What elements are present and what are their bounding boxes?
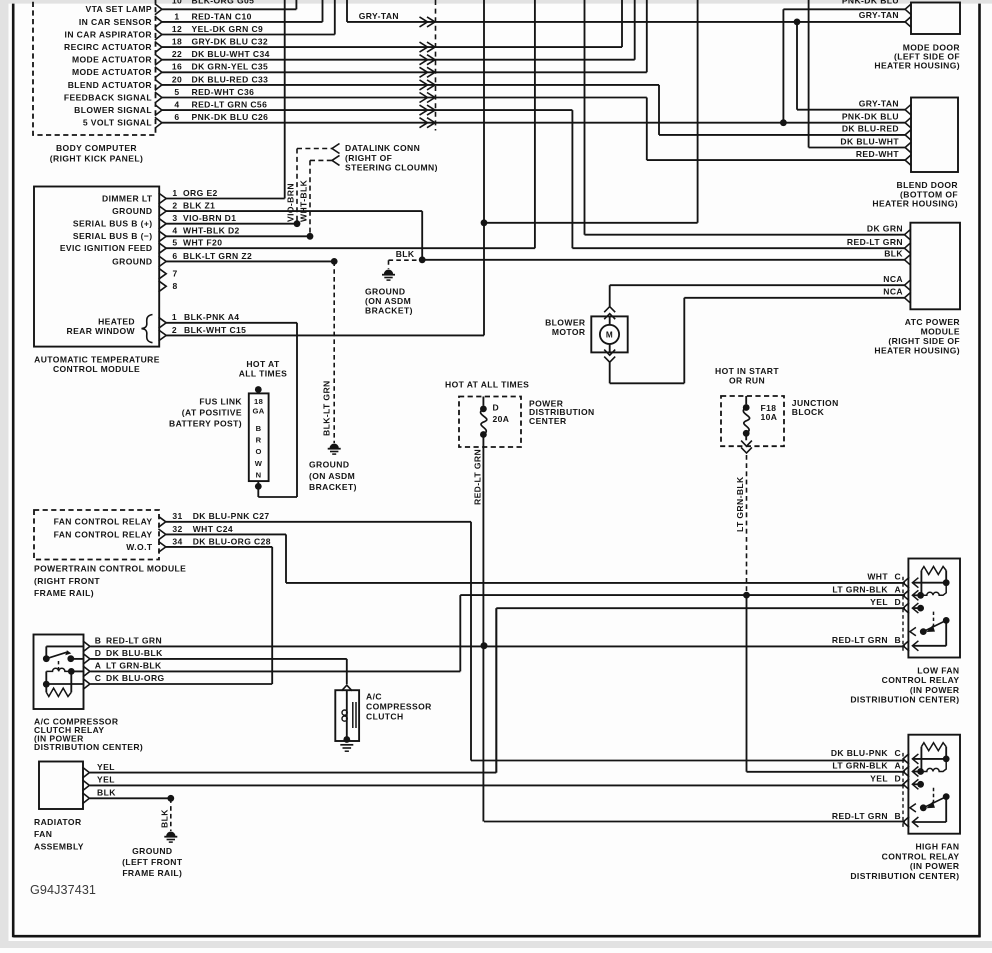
svg-text:1: 1 <box>172 188 177 198</box>
svg-text:4: 4 <box>172 226 177 236</box>
svg-text:LT GRN-BLK: LT GRN-BLK <box>106 661 162 671</box>
svg-text:16: 16 <box>172 62 182 72</box>
svg-text:LT GRN-BLK: LT GRN-BLK <box>832 761 888 771</box>
svg-text:W.O.T: W.O.T <box>126 542 153 552</box>
svg-text:GROUND: GROUND <box>112 206 152 216</box>
svg-text:A: A <box>95 661 102 671</box>
svg-text:R: R <box>256 436 262 445</box>
svg-text:10A: 10A <box>761 412 778 422</box>
svg-text:WHT: WHT <box>867 572 888 582</box>
svg-text:C: C <box>895 748 902 758</box>
svg-text:10: 10 <box>172 0 182 5</box>
svg-text:RED-LT GRN: RED-LT GRN <box>832 635 888 645</box>
svg-text:A/C: A/C <box>366 691 382 701</box>
svg-text:LT GRN-BLK: LT GRN-BLK <box>832 584 888 594</box>
svg-text:REAR WINDOW: REAR WINDOW <box>67 326 136 336</box>
svg-text:DK BLU-PNK: DK BLU-PNK <box>831 748 889 758</box>
svg-text:(RIGHT KICK PANEL): (RIGHT KICK PANEL) <box>50 154 143 164</box>
svg-text:BLOWER: BLOWER <box>545 317 585 327</box>
svg-text:MODE ACTUATOR: MODE ACTUATOR <box>72 67 152 77</box>
svg-text:DK BLU-BLK: DK BLU-BLK <box>106 648 163 658</box>
svg-text:IN CAR SENSOR: IN CAR SENSOR <box>79 17 152 27</box>
svg-text:FRAME RAIL): FRAME RAIL) <box>34 588 94 598</box>
svg-text:3: 3 <box>172 213 177 223</box>
svg-text:WHT C24: WHT C24 <box>193 524 233 534</box>
svg-text:MOTOR: MOTOR <box>552 327 586 337</box>
svg-text:32: 32 <box>172 524 182 534</box>
svg-text:BLK: BLK <box>97 788 116 798</box>
svg-text:D: D <box>493 402 500 412</box>
svg-text:CENTER: CENTER <box>529 416 567 426</box>
svg-text:FUS LINK: FUS LINK <box>199 397 242 407</box>
svg-text:RED-LT GRN: RED-LT GRN <box>832 811 888 821</box>
svg-text:FAN CONTROL RELAY: FAN CONTROL RELAY <box>54 529 153 539</box>
svg-text:18: 18 <box>172 37 182 47</box>
svg-text:RED-LT GRN C56: RED-LT GRN C56 <box>192 100 268 110</box>
svg-text:GRY-DK BLU C32: GRY-DK BLU C32 <box>192 37 269 47</box>
svg-text:RADIATOR: RADIATOR <box>34 817 82 827</box>
svg-text:W: W <box>255 459 263 468</box>
svg-text:DK GRN: DK GRN <box>867 224 903 234</box>
svg-text:YEL: YEL <box>870 773 888 783</box>
svg-text:WHT-BLK: WHT-BLK <box>299 179 309 222</box>
svg-text:GRY-TAN: GRY-TAN <box>859 99 899 109</box>
svg-text:SERIAL BUS B (−): SERIAL BUS B (−) <box>73 231 153 241</box>
svg-text:5 VOLT SIGNAL: 5 VOLT SIGNAL <box>83 118 152 128</box>
svg-text:(LEFT FRONT: (LEFT FRONT <box>122 857 183 867</box>
svg-text:BLK Z1: BLK Z1 <box>183 201 215 211</box>
svg-text:BLK-LT GRN: BLK-LT GRN <box>322 380 332 436</box>
svg-text:B: B <box>895 635 902 645</box>
svg-text:HEATER HOUSING): HEATER HOUSING) <box>872 199 958 209</box>
svg-text:VTA SET LAMP: VTA SET LAMP <box>85 4 152 14</box>
svg-text:PNK-DK BLU C26: PNK-DK BLU C26 <box>192 112 269 122</box>
svg-text:O: O <box>255 447 261 456</box>
svg-text:(RIGHT FRONT: (RIGHT FRONT <box>34 576 100 586</box>
svg-text:RED-TAN C10: RED-TAN C10 <box>192 11 252 21</box>
svg-text:VIO-BRN: VIO-BRN <box>286 183 296 222</box>
svg-text:RECIRC ACTUATOR: RECIRC ACTUATOR <box>64 42 152 52</box>
svg-text:PNK-DK BLU: PNK-DK BLU <box>842 0 899 5</box>
svg-text:CONTROL RELAY: CONTROL RELAY <box>882 675 960 685</box>
svg-text:STEERING CLOUMN): STEERING CLOUMN) <box>345 163 438 173</box>
svg-text:BLOWER SIGNAL: BLOWER SIGNAL <box>74 105 152 115</box>
svg-text:DISTRIBUTION CENTER): DISTRIBUTION CENTER) <box>850 695 959 705</box>
svg-text:CLUTCH: CLUTCH <box>366 712 404 722</box>
svg-text:5: 5 <box>174 87 179 97</box>
svg-text:DATALINK CONN: DATALINK CONN <box>345 143 420 153</box>
svg-text:BLK: BLK <box>884 249 903 259</box>
svg-text:EVIC IGNITION FEED: EVIC IGNITION FEED <box>60 243 153 253</box>
svg-text:YEL: YEL <box>97 762 115 772</box>
svg-text:RED-LT GRN: RED-LT GRN <box>106 636 162 646</box>
svg-text:4: 4 <box>174 100 179 110</box>
svg-text:M: M <box>606 331 613 340</box>
svg-text:GA: GA <box>252 406 264 415</box>
svg-text:GROUND: GROUND <box>309 460 349 470</box>
svg-text:DK BLU-WHT: DK BLU-WHT <box>840 136 899 146</box>
svg-text:VIO-BRN D1: VIO-BRN D1 <box>183 213 236 223</box>
svg-text:A: A <box>895 761 902 771</box>
svg-text:6: 6 <box>174 112 179 122</box>
svg-text:20A: 20A <box>493 414 510 424</box>
svg-text:GROUND: GROUND <box>112 256 152 266</box>
svg-text:N: N <box>256 470 262 479</box>
svg-text:5: 5 <box>172 238 177 248</box>
svg-text:C: C <box>95 673 102 683</box>
svg-text:NCA: NCA <box>883 287 903 297</box>
svg-text:SERIAL BUS B (+): SERIAL BUS B (+) <box>73 219 153 229</box>
svg-text:GRY-TAN: GRY-TAN <box>359 11 399 21</box>
svg-text:HOT AT: HOT AT <box>246 359 280 369</box>
svg-text:RED-WHT: RED-WHT <box>856 149 900 159</box>
svg-text:(ON ASDM: (ON ASDM <box>309 471 355 481</box>
svg-text:GRY-TAN: GRY-TAN <box>859 10 899 20</box>
svg-text:MODE ACTUATOR: MODE ACTUATOR <box>72 55 152 65</box>
svg-text:2: 2 <box>172 201 177 211</box>
svg-text:DISTRIBUTION CENTER): DISTRIBUTION CENTER) <box>850 871 959 881</box>
svg-text:RED-WHT C36: RED-WHT C36 <box>192 87 255 97</box>
svg-text:RED-LT GRN: RED-LT GRN <box>472 449 482 505</box>
svg-text:WHT F20: WHT F20 <box>183 238 222 248</box>
svg-text:(AT POSITIVE: (AT POSITIVE <box>182 408 242 418</box>
svg-text:A: A <box>895 584 902 594</box>
svg-text:FAN CONTROL RELAY: FAN CONTROL RELAY <box>54 517 153 527</box>
svg-text:PNK-DK BLU: PNK-DK BLU <box>842 112 899 122</box>
svg-text:BLK-WHT C15: BLK-WHT C15 <box>184 325 246 335</box>
svg-text:DK BLU-RED C33: DK BLU-RED C33 <box>192 74 269 84</box>
svg-text:B: B <box>256 424 262 433</box>
svg-text:WHT-BLK D2: WHT-BLK D2 <box>183 226 240 236</box>
svg-text:BLK: BLK <box>159 809 169 828</box>
svg-text:BRACKET): BRACKET) <box>365 306 413 316</box>
svg-text:BLK: BLK <box>396 249 415 259</box>
svg-text:YEL: YEL <box>97 775 115 785</box>
svg-text:DK BLU-PNK C27: DK BLU-PNK C27 <box>193 511 270 521</box>
svg-text:CONTROL RELAY: CONTROL RELAY <box>882 851 960 861</box>
svg-text:ASSEMBLY: ASSEMBLY <box>34 841 84 851</box>
svg-text:LT GRN-BLK: LT GRN-BLK <box>735 476 745 532</box>
svg-text:CONTROL MODULE: CONTROL MODULE <box>53 364 140 374</box>
svg-text:BLEND ACTUATOR: BLEND ACTUATOR <box>68 80 152 90</box>
svg-text:POWERTRAIN CONTROL MODULE: POWERTRAIN CONTROL MODULE <box>34 564 186 574</box>
svg-text:DIMMER LT: DIMMER LT <box>102 193 153 203</box>
svg-text:BLK-ORG G05: BLK-ORG G05 <box>192 0 255 5</box>
svg-text:22: 22 <box>172 49 182 59</box>
svg-text:HOT AT ALL TIMES: HOT AT ALL TIMES <box>445 379 529 389</box>
svg-text:BODY COMPUTER: BODY COMPUTER <box>56 143 137 153</box>
svg-text:DK BLU-ORG: DK BLU-ORG <box>106 673 165 683</box>
svg-text:DISTRIBUTION CENTER): DISTRIBUTION CENTER) <box>34 742 143 752</box>
svg-text:GROUND: GROUND <box>132 846 172 856</box>
svg-text:6: 6 <box>172 251 177 261</box>
svg-text:BATTERY POST): BATTERY POST) <box>169 419 242 429</box>
svg-text:7: 7 <box>173 269 178 279</box>
svg-text:20: 20 <box>172 74 182 84</box>
svg-text:(IN POWER: (IN POWER <box>910 861 960 871</box>
svg-text:(IN POWER: (IN POWER <box>910 685 960 695</box>
svg-text:NCA: NCA <box>883 274 903 284</box>
svg-text:DK BLU-WHT C34: DK BLU-WHT C34 <box>192 49 270 59</box>
svg-text:FEEDBACK SIGNAL: FEEDBACK SIGNAL <box>64 92 152 102</box>
svg-text:RED-LT GRN: RED-LT GRN <box>847 237 903 247</box>
svg-text:D: D <box>895 773 902 783</box>
svg-text:12: 12 <box>172 24 182 34</box>
svg-text:BLK-LT GRN Z2: BLK-LT GRN Z2 <box>183 251 252 261</box>
svg-text:FAN: FAN <box>34 829 52 839</box>
svg-text:8: 8 <box>173 281 178 291</box>
svg-text:1: 1 <box>174 11 179 21</box>
svg-text:LOW FAN: LOW FAN <box>917 666 959 676</box>
svg-text:ORG E2: ORG E2 <box>183 188 218 198</box>
svg-text:FRAME RAIL): FRAME RAIL) <box>122 868 182 878</box>
svg-text:B: B <box>95 636 102 646</box>
svg-text:HIGH FAN: HIGH FAN <box>915 842 959 852</box>
svg-text:B: B <box>895 811 902 821</box>
svg-text:HEATER HOUSING): HEATER HOUSING) <box>874 60 960 70</box>
svg-text:BLOCK: BLOCK <box>792 407 825 417</box>
svg-text:BLK-PNK A4: BLK-PNK A4 <box>184 312 239 322</box>
svg-text:HOT IN START: HOT IN START <box>715 366 779 376</box>
svg-text:COMPRESSOR: COMPRESSOR <box>366 702 432 712</box>
svg-text:31: 31 <box>172 511 182 521</box>
svg-text:2: 2 <box>172 325 177 335</box>
svg-text:G94J37431: G94J37431 <box>30 883 96 897</box>
svg-text:D: D <box>895 597 902 607</box>
svg-text:D: D <box>95 648 102 658</box>
svg-text:DK BLU-ORG C28: DK BLU-ORG C28 <box>193 536 271 546</box>
svg-text:DK GRN-YEL C35: DK GRN-YEL C35 <box>192 62 269 72</box>
svg-text:YEL-DK GRN C9: YEL-DK GRN C9 <box>192 24 264 34</box>
svg-text:ALL TIMES: ALL TIMES <box>239 368 288 378</box>
svg-text:1: 1 <box>172 312 177 322</box>
svg-text:OR RUN: OR RUN <box>729 376 765 386</box>
svg-text:DK BLU-RED: DK BLU-RED <box>842 124 899 134</box>
svg-text:YEL: YEL <box>870 597 888 607</box>
svg-text:18: 18 <box>254 397 263 406</box>
svg-text:34: 34 <box>172 536 182 546</box>
svg-text:HEATER HOUSING): HEATER HOUSING) <box>874 345 960 355</box>
svg-text:IN CAR ASPIRATOR: IN CAR ASPIRATOR <box>65 29 152 39</box>
svg-text:C: C <box>895 572 902 582</box>
svg-text:BRACKET): BRACKET) <box>309 482 357 492</box>
